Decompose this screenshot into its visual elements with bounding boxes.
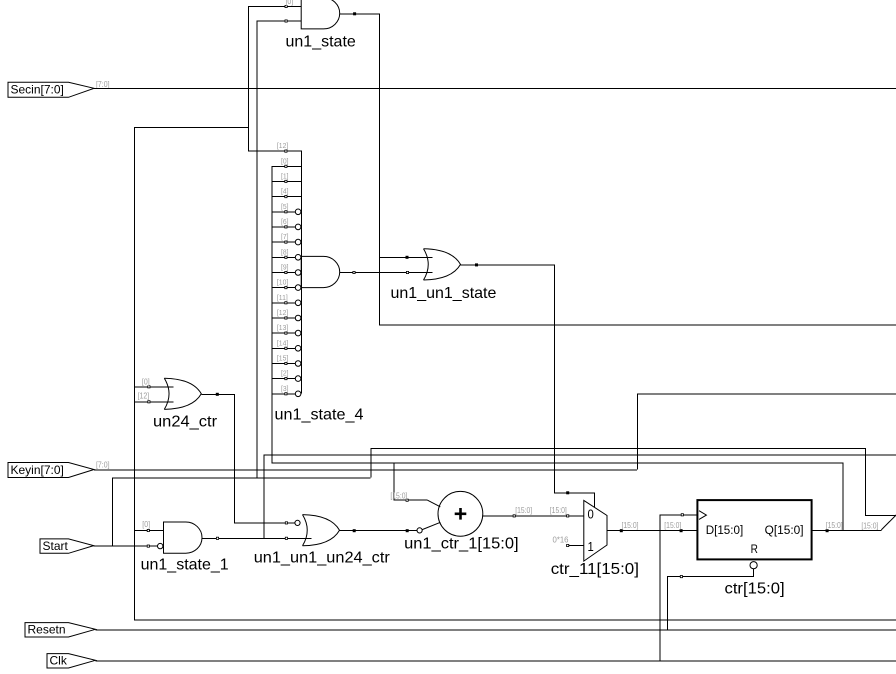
svg-text:[10]: [10] bbox=[277, 278, 288, 286]
svg-text:[15:0]: [15:0] bbox=[622, 521, 639, 531]
svg-text:[1]: [1] bbox=[281, 172, 289, 180]
svg-text:[0]: [0] bbox=[142, 520, 150, 530]
svg-text:un1_state_1: un1_state_1 bbox=[141, 557, 229, 574]
svg-text:Q[15:0]: Q[15:0] bbox=[765, 523, 804, 537]
svg-text:un1_ctr_1[15:0]: un1_ctr_1[15:0] bbox=[404, 535, 518, 553]
svg-text:un1_state_4: un1_state_4 bbox=[275, 406, 364, 424]
svg-text:[9]: [9] bbox=[281, 263, 289, 271]
svg-text:[5]: [5] bbox=[281, 203, 289, 211]
svg-text:[7]: [7] bbox=[281, 233, 289, 241]
svg-text:[15:0]: [15:0] bbox=[861, 521, 878, 531]
svg-text:un1_un1_state: un1_un1_state bbox=[391, 285, 497, 302]
svg-text:0*16: 0*16 bbox=[553, 535, 570, 544]
svg-text:ctr_11[15:0]: ctr_11[15:0] bbox=[551, 560, 639, 577]
svg-text:un1_state: un1_state bbox=[286, 34, 356, 51]
svg-text:[6]: [6] bbox=[281, 218, 289, 226]
svg-text:[12]: [12] bbox=[138, 391, 150, 401]
svg-text:[15:0]: [15:0] bbox=[664, 521, 681, 531]
svg-text:[2]: [2] bbox=[281, 369, 289, 377]
svg-text:Clk: Clk bbox=[50, 654, 68, 668]
svg-text:[15:0]: [15:0] bbox=[550, 505, 567, 515]
svg-text:0: 0 bbox=[588, 507, 594, 522]
svg-text:[8]: [8] bbox=[281, 248, 289, 256]
svg-text:[7:0]: [7:0] bbox=[96, 460, 110, 470]
svg-text:[0]: [0] bbox=[286, 0, 294, 6]
svg-text:[15:0]: [15:0] bbox=[515, 505, 532, 515]
svg-text:[7:0]: [7:0] bbox=[96, 80, 110, 90]
svg-text:Start: Start bbox=[43, 539, 69, 553]
svg-text:Resetn: Resetn bbox=[28, 623, 66, 637]
svg-text:Secin[7:0]: Secin[7:0] bbox=[11, 83, 64, 97]
svg-text:un1_un1_un24_ctr: un1_un1_un24_ctr bbox=[254, 549, 391, 567]
svg-text:[14]: [14] bbox=[277, 339, 288, 347]
svg-text:D[15:0]: D[15:0] bbox=[706, 523, 744, 537]
svg-text:[12]: [12] bbox=[277, 142, 288, 150]
svg-text:1: 1 bbox=[588, 539, 594, 554]
svg-text:[15:0]: [15:0] bbox=[826, 521, 843, 531]
svg-text:[3]: [3] bbox=[281, 385, 289, 393]
svg-text:[0]: [0] bbox=[281, 157, 289, 165]
svg-text:Keyin[7:0]: Keyin[7:0] bbox=[11, 463, 64, 477]
svg-text:[13]: [13] bbox=[277, 324, 288, 332]
svg-text:[11]: [11] bbox=[277, 294, 288, 302]
svg-text:R: R bbox=[751, 543, 758, 556]
svg-text:[15]: [15] bbox=[277, 354, 288, 362]
svg-text:[15:0]: [15:0] bbox=[390, 491, 407, 501]
svg-text:ctr[15:0]: ctr[15:0] bbox=[725, 580, 785, 598]
svg-text:[12]: [12] bbox=[277, 309, 288, 317]
svg-text:[4]: [4] bbox=[281, 187, 289, 195]
svg-text:[0]: [0] bbox=[142, 377, 150, 387]
svg-text:un24_ctr: un24_ctr bbox=[153, 413, 218, 431]
